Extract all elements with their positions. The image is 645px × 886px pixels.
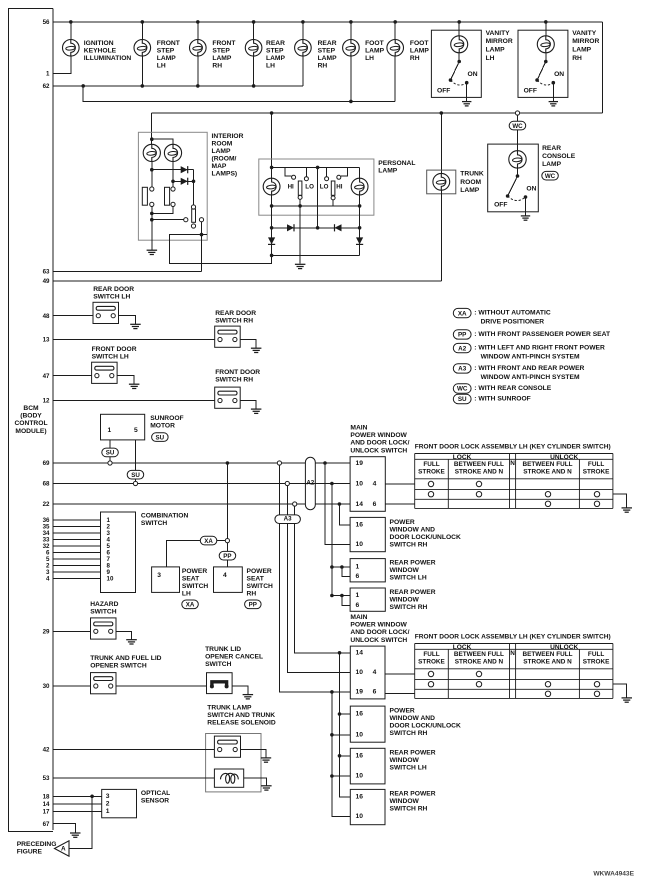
node foot lamp LH on return bus — [349, 100, 353, 104]
svg-text:WINDOW ANTI-PINCH SYSTEM: WINDOW ANTI-PINCH SYSTEM — [481, 374, 580, 381]
svg-text:ON: ON — [554, 71, 564, 78]
node rear LH pin6 branch — [340, 565, 344, 569]
wire step lamp return — [197, 56, 199, 86]
combination switch box — [101, 512, 136, 593]
svg-text:10: 10 — [356, 813, 364, 820]
svg-text:FIGURE: FIGURE — [17, 848, 43, 855]
wire to lower rear LH pin 10 — [332, 775, 350, 777]
wire BCM pin 69 line — [53, 462, 350, 464]
wire personal internal bus — [272, 166, 360, 168]
svg-text:: WITH FRONT AND REAR POWER: : WITH FRONT AND REAR POWER — [474, 365, 584, 372]
svg-text:LH: LH — [365, 55, 374, 62]
wire BCM pin 18 line — [53, 795, 102, 797]
ground vanity LH — [462, 102, 471, 106]
svg-text:TRUNK LID: TRUNK LID — [205, 646, 241, 653]
svg-text:CONTROL: CONTROL — [14, 420, 47, 427]
wire front door switch LH to ground — [117, 376, 134, 385]
wire chain line22 to window lock RH pin 16 — [339, 504, 350, 525]
wire BCM pin 30 line — [53, 685, 91, 687]
legend SU capsule — [453, 394, 471, 403]
svg-text:ILLUMINATION: ILLUMINATION — [84, 55, 132, 62]
svg-text:: WITH FRONT PASSENGER POWER S: : WITH FRONT PASSENGER POWER SEAT — [474, 331, 611, 338]
svg-text:63: 63 — [43, 269, 50, 276]
svg-text:UNLOCK: UNLOCK — [550, 454, 578, 461]
svg-text:22: 22 — [43, 501, 50, 508]
svg-text:FRONT DOOR LOCK ASSEMBLY LH (K: FRONT DOOR LOCK ASSEMBLY LH (KEY CYLINDE… — [415, 443, 611, 450]
svg-text:6: 6 — [356, 602, 360, 609]
BCM boundary outer line — [8, 9, 53, 832]
node preceding-figure tap — [90, 795, 94, 799]
trunk lid opener cancel switch contact (closed bracket) — [212, 682, 227, 687]
node interior feed split — [150, 137, 154, 141]
PP tag power seat RH — [245, 600, 262, 609]
svg-text:19: 19 — [356, 689, 364, 696]
node personal return center — [298, 204, 302, 208]
wire BCM pin 12 line — [53, 400, 215, 402]
lamp vanity mirror RH — [537, 36, 554, 53]
wire foot lamp return — [394, 56, 396, 101]
trunk release solenoid box — [214, 769, 243, 787]
svg-text:SWITCH: SWITCH — [205, 661, 232, 668]
wire power seat tap down — [226, 463, 228, 539]
svg-text:1: 1 — [356, 564, 360, 571]
svg-text:(ROOM/: (ROOM/ — [212, 155, 237, 162]
svg-text:LH: LH — [486, 55, 495, 62]
svg-text:MIRROR: MIRROR — [486, 38, 513, 45]
svg-text:ROOM: ROOM — [460, 179, 481, 186]
svg-text:62: 62 — [43, 83, 50, 90]
trunk lamp switch and release solenoid outer box — [206, 734, 261, 792]
svg-text:3: 3 — [106, 793, 110, 800]
wire lamp1 to its switch — [151, 170, 153, 187]
svg-text:REAR: REAR — [318, 40, 337, 47]
svg-text:UNLOCK SWITCH: UNLOCK SWITCH — [350, 447, 407, 454]
svg-text:POWER: POWER — [390, 519, 415, 526]
svg-text:WC: WC — [512, 123, 523, 130]
ground rear console lamp — [521, 216, 530, 220]
svg-text:LAMP: LAMP — [486, 47, 505, 54]
wire step lamp return — [141, 56, 143, 86]
svg-text:56: 56 — [43, 19, 50, 26]
wire to rear power window LH pin 1 — [332, 566, 350, 568]
svg-text:AND DOOR LOCK/: AND DOOR LOCK/ — [350, 440, 409, 447]
ground trunk lid opener cancel switch — [243, 695, 254, 699]
svg-text:SWITCH: SWITCH — [90, 608, 117, 615]
lever personal switch left — [298, 181, 302, 195]
svg-text:REAR POWER: REAR POWER — [390, 560, 436, 567]
svg-text:10: 10 — [356, 669, 364, 676]
svg-text:10: 10 — [356, 731, 364, 738]
lamp foot lamp RH — [387, 40, 404, 57]
svg-text:LAMP: LAMP — [157, 55, 176, 62]
svg-text:SWITCH RH: SWITCH RH — [215, 376, 253, 383]
svg-text:ON: ON — [526, 185, 536, 192]
svg-text:LAMP: LAMP — [572, 47, 591, 54]
rear power window switch LH box (upper) — [350, 559, 385, 582]
wire personal lamp feed drop — [271, 113, 273, 178]
wire hazard switch to ground — [116, 631, 132, 639]
legend PP capsule — [453, 330, 471, 339]
svg-text:LAMP: LAMP — [460, 187, 479, 194]
ground trunk lamp switch — [261, 758, 271, 762]
svg-text:POWER WINDOW: POWER WINDOW — [350, 432, 407, 439]
wire table common to ground — [613, 494, 627, 507]
diode interior 2 — [181, 178, 188, 185]
svg-text:SENSOR: SENSOR — [141, 798, 169, 805]
XA option capsule — [200, 536, 217, 545]
svg-text:SWITCH RH: SWITCH RH — [390, 542, 428, 549]
svg-text:OFF: OFF — [524, 88, 537, 95]
svg-text:10: 10 — [356, 773, 364, 780]
svg-text:MIRROR: MIRROR — [572, 38, 599, 45]
wire to lower lock RH pin 16 — [340, 713, 351, 715]
svg-text:16: 16 — [356, 794, 364, 801]
wire BCM pin 63 line — [53, 271, 202, 273]
SU option capsule 2 — [127, 470, 144, 479]
svg-text:53: 53 — [43, 775, 50, 782]
svg-text:WINDOW AND: WINDOW AND — [390, 715, 436, 722]
svg-text:OPTICAL: OPTICAL — [141, 790, 170, 797]
wire PP capsule to seat switch RH — [226, 560, 228, 567]
wire diode outputs join — [193, 170, 195, 205]
wire solenoid to ground — [244, 778, 267, 786]
svg-text:4: 4 — [373, 480, 377, 487]
wire opener switch to cancel switch — [116, 685, 207, 687]
wire lamp LH bottom — [271, 195, 273, 228]
lamp rear step lamp LH — [245, 40, 262, 57]
node personal bottom left — [270, 254, 274, 258]
wire drop to front step lamp RH — [197, 22, 199, 40]
ground rear door switch RH — [251, 348, 262, 352]
svg-text:SWITCH: SWITCH — [141, 520, 168, 527]
svg-text:49: 49 — [43, 278, 50, 285]
node rear power window LH tap — [330, 565, 334, 569]
table contact circles lock side — [476, 671, 481, 676]
BCM (Body Control Module) vertical bus line — [52, 9, 54, 830]
svg-text:POWER: POWER — [247, 568, 272, 575]
wire to lower lock RH pin 10 — [332, 734, 350, 736]
svg-text:1: 1 — [46, 71, 50, 78]
wire BCM pin 47 line — [53, 375, 92, 377]
wire switch1 bottom down — [151, 207, 153, 241]
wire drop into vanity RH — [545, 22, 547, 36]
lamp interior room 1 — [143, 144, 160, 161]
legend A3 capsule — [453, 364, 471, 373]
wire room lamp 1 to node — [151, 162, 153, 170]
svg-text:LH: LH — [182, 590, 191, 597]
wire BCM pin 53 line — [53, 777, 214, 779]
switch lever vanity LH — [451, 62, 460, 81]
A2 option capsule — [305, 457, 315, 509]
wire combination switch line 1 — [53, 519, 101, 521]
wire cancel switch to ground — [232, 686, 248, 695]
wire main1 pin4 to key cylinder table — [385, 483, 414, 485]
wire hook LO right — [326, 167, 328, 176]
wire hook LO left — [305, 167, 307, 176]
wire sunroof pin5 down — [135, 440, 137, 471]
svg-text:ROOM: ROOM — [212, 140, 233, 147]
lever personal switch right — [331, 181, 335, 195]
svg-text:XA: XA — [186, 602, 195, 609]
svg-text:WINDOW: WINDOW — [390, 757, 420, 764]
SU option capsule 1 — [102, 448, 119, 457]
wire room lamp 2 down — [172, 162, 174, 182]
svg-text:REAR POWER: REAR POWER — [390, 589, 436, 596]
diode personal left down — [268, 237, 275, 244]
node on pin56 bus at vanity LH — [457, 20, 461, 24]
wire 16-chain to lower switches — [340, 653, 351, 797]
wire vanity LH switch to ground — [466, 83, 468, 102]
trunk and fuel lid opener switch — [91, 673, 117, 694]
svg-text:VANITY: VANITY — [486, 30, 511, 37]
WC option capsule — [509, 121, 526, 130]
svg-text:STROKE AND N: STROKE AND N — [455, 659, 504, 666]
svg-text:PERSONAL: PERSONAL — [378, 160, 415, 167]
wire vanity RH switch to ground — [552, 83, 554, 102]
wire rear door switch LH to ground — [119, 316, 136, 325]
lamp personal RH — [351, 178, 368, 195]
svg-text:WINDOW ANTI-PINCH SYSTEM: WINDOW ANTI-PINCH SYSTEM — [481, 354, 580, 361]
svg-text:4: 4 — [223, 572, 227, 579]
svg-text:LAMPS): LAMPS) — [212, 170, 238, 177]
personal lamp box — [259, 159, 374, 215]
wire BCM pin 14 line — [53, 803, 102, 805]
svg-text:POWER: POWER — [390, 708, 415, 715]
svg-text:STROKE AND N: STROKE AND N — [523, 469, 572, 476]
wire BCM pin 13 line — [53, 339, 215, 341]
node diode row center — [316, 226, 320, 230]
svg-text:POWER WINDOW: POWER WINDOW — [350, 622, 407, 629]
svg-text:TRUNK LAMP: TRUNK LAMP — [207, 704, 252, 711]
node diode join — [192, 180, 196, 184]
svg-text:6: 6 — [373, 501, 377, 508]
node personal feed on interior line — [270, 111, 274, 115]
svg-text:XA: XA — [204, 538, 213, 545]
svg-text:SWITCH: SWITCH — [247, 583, 274, 590]
rear power window switch RH box (upper) — [350, 588, 385, 611]
wire BCM pin 17 line — [53, 810, 102, 812]
svg-text:BCM: BCM — [23, 405, 39, 412]
svg-text:FRONT DOOR: FRONT DOOR — [215, 369, 260, 376]
switch interior lamp 2 (door) — [165, 187, 170, 205]
wire drop to foot lamp RH — [394, 22, 396, 40]
svg-text:PP: PP — [223, 553, 231, 560]
node interior diode2 tap — [171, 180, 175, 184]
svg-text:POWER: POWER — [182, 568, 207, 575]
wire hook HI right — [341, 167, 347, 176]
front door lock assembly table grid — [415, 454, 613, 509]
svg-text:DOOR LOCK/UNLOCK: DOOR LOCK/UNLOCK — [390, 534, 461, 541]
node personal return RH — [358, 204, 362, 208]
wire BCM pin 67 line — [53, 824, 75, 833]
svg-text:RH: RH — [410, 55, 420, 62]
svg-text:42: 42 — [43, 747, 50, 754]
svg-text:MOTOR: MOTOR — [150, 423, 175, 430]
svg-text:68: 68 — [43, 481, 50, 488]
wire drop into vanity LH — [458, 22, 460, 36]
wire XA capsule to vertical — [217, 540, 226, 542]
wire foot lamp return — [350, 56, 352, 101]
svg-text:WINDOW: WINDOW — [390, 567, 420, 574]
node interior return 2 — [150, 218, 154, 222]
table contact circles lock side — [428, 671, 433, 676]
vanity mirror lamp LH box — [431, 30, 481, 97]
svg-text:SWITCH LH: SWITCH LH — [390, 575, 427, 582]
wire lever left to ground run — [299, 199, 301, 263]
node on pin62 bus — [196, 84, 200, 88]
svg-text:STROKE: STROKE — [418, 659, 445, 666]
svg-text:30: 30 — [43, 683, 50, 690]
svg-text:SUNROOF: SUNROOF — [150, 415, 183, 422]
svg-text:FULL: FULL — [588, 651, 604, 658]
svg-text:WINDOW: WINDOW — [390, 597, 420, 604]
wire interior bypass loop — [170, 235, 272, 264]
lamp rear console — [509, 151, 526, 168]
wire combination switch line 2 — [53, 525, 101, 527]
wire selector right contact down — [201, 222, 203, 272]
svg-text:REAR DOOR: REAR DOOR — [215, 310, 256, 317]
node on pin56 bus at front step lamp LH — [141, 20, 145, 24]
node personal bus left — [270, 166, 274, 170]
svg-text:FRONT DOOR LOCK ASSEMBLY LH (K: FRONT DOOR LOCK ASSEMBLY LH (KEY CYLINDE… — [415, 633, 611, 640]
svg-text:SU: SU — [131, 472, 140, 479]
diode personal row right-pointing — [287, 224, 294, 231]
svg-text:HAZARD: HAZARD — [90, 601, 118, 608]
wire sunroof pin1 down — [109, 440, 111, 448]
wire vanity LH lamp to switch — [458, 53, 460, 62]
svg-text:OFF: OFF — [437, 88, 450, 95]
svg-text:FRONT: FRONT — [212, 40, 236, 47]
svg-text:SWITCH LH: SWITCH LH — [92, 353, 129, 360]
svg-text:SU: SU — [458, 396, 467, 403]
contact HI right — [337, 175, 341, 179]
svg-text:: WITHOUT AUTOMATIC: : WITHOUT AUTOMATIC — [474, 310, 551, 317]
svg-text:14: 14 — [356, 501, 364, 508]
hazard switch — [91, 618, 117, 639]
lamp front step lamp RH — [190, 40, 207, 57]
svg-text:RH: RH — [247, 590, 257, 597]
svg-text:STROKE: STROKE — [583, 469, 610, 476]
svg-text:SWITCH RH: SWITCH RH — [215, 318, 253, 325]
wire combination switch line 5 — [53, 545, 101, 547]
svg-text:29: 29 — [43, 629, 50, 636]
node on pin56 bus at foot lamp LH — [349, 20, 353, 24]
wire lever right to return bus — [332, 200, 334, 206]
trunk lid opener cancel switch box — [207, 673, 233, 694]
svg-text:47: 47 — [43, 373, 50, 380]
WC tag rear console — [542, 171, 559, 180]
svg-text:STROKE: STROKE — [418, 469, 445, 476]
node SU on line 68 (open) — [133, 481, 137, 485]
wire drop to front step lamp LH — [141, 22, 143, 40]
svg-text:12: 12 — [43, 398, 50, 405]
svg-text:ON: ON — [468, 71, 478, 78]
front door lock assembly table grid — [415, 644, 613, 699]
rear power window switch LH box (lower) — [350, 748, 385, 784]
svg-text:LOCK: LOCK — [453, 644, 472, 651]
node interior diode1 tap — [150, 168, 154, 172]
svg-text:1: 1 — [106, 808, 110, 815]
main power window switch 1 box — [350, 457, 385, 512]
trunk lamp switch — [214, 736, 240, 757]
svg-text:LAMP: LAMP — [410, 48, 429, 55]
svg-text:10: 10 — [356, 480, 364, 487]
svg-text:SWITCH: SWITCH — [182, 583, 209, 590]
wire lamp2 to its switch — [172, 181, 174, 187]
svg-text:HI: HI — [336, 184, 342, 191]
svg-text:LAMP: LAMP — [318, 55, 337, 62]
svg-text:UNLOCK: UNLOCK — [550, 644, 578, 651]
node rear RH junction — [330, 594, 334, 598]
wire A3 branch line69 to main2 pin 19 — [279, 465, 350, 692]
svg-text:LH: LH — [266, 63, 275, 70]
wire to diode 1 — [152, 169, 194, 171]
node on pin56 bus at vanity RH — [544, 20, 548, 24]
svg-text:MAIN: MAIN — [350, 614, 367, 621]
svg-text:LOCK: LOCK — [453, 454, 472, 461]
wire rear door switch RH to ground — [240, 340, 256, 349]
svg-text:STEP: STEP — [318, 48, 336, 55]
ground hazard switch — [126, 640, 137, 644]
wire chain line69 to window lock RH pin 10 — [325, 463, 350, 545]
diode personal right down — [356, 237, 363, 244]
wire BCM pin 22 line — [53, 503, 350, 505]
wire right-side vertical from pin56 bus — [601, 22, 603, 113]
svg-text:RH: RH — [212, 63, 222, 70]
svg-text:3: 3 — [157, 572, 161, 579]
svg-text:BETWEEN FULL: BETWEEN FULL — [522, 651, 572, 658]
svg-text:4: 4 — [46, 576, 50, 583]
svg-text:A3: A3 — [284, 516, 292, 523]
wire combination switch line 8 — [53, 564, 101, 566]
svg-text:LO: LO — [305, 184, 314, 191]
svg-text:MAIN: MAIN — [350, 425, 367, 432]
wire vanity RH lamp to switch — [545, 53, 547, 62]
rear console lamp box — [488, 144, 539, 212]
ground key cylinder switch — [622, 508, 633, 512]
svg-text:STROKE: STROKE — [583, 659, 610, 666]
wire personal bus to lamp RH — [359, 167, 361, 178]
svg-text:SWITCH AND TRUNK: SWITCH AND TRUNK — [207, 712, 275, 719]
wire 10-chain to lower switches — [332, 692, 350, 817]
svg-text:PP: PP — [249, 602, 257, 609]
svg-text:4: 4 — [373, 669, 377, 676]
wire WC drop — [517, 115, 519, 152]
svg-text:BETWEEN FULL: BETWEEN FULL — [522, 461, 572, 468]
contact LO right — [325, 177, 329, 181]
legend A2 capsule — [453, 343, 471, 352]
table contact circles unlock side — [545, 682, 550, 687]
svg-text:MAP: MAP — [212, 163, 227, 170]
node SU on line 69 (open) — [108, 461, 112, 465]
wire combination switch line 3 — [53, 532, 101, 534]
front door switch RH — [215, 387, 241, 408]
wire center drop to diode row — [317, 167, 319, 227]
wire drop to rear step lamp RH — [302, 22, 304, 40]
svg-text:HI: HI — [288, 184, 294, 191]
node on pin56 bus at rear step lamp RH — [301, 20, 305, 24]
svg-text:48: 48 — [43, 313, 50, 320]
wire combination switch line 9 — [53, 571, 101, 573]
svg-text:SWITCH RH: SWITCH RH — [390, 806, 428, 813]
selector element (3-position switch) — [191, 205, 195, 209]
lamp rear step lamp RH — [295, 40, 312, 57]
svg-text:SEAT: SEAT — [247, 575, 265, 582]
node on pin56 bus at ignition keyhole illumination — [69, 20, 73, 24]
PP option capsule — [219, 551, 236, 560]
svg-text:REAR POWER: REAR POWER — [390, 750, 436, 757]
table contact circles unlock side — [594, 492, 599, 497]
